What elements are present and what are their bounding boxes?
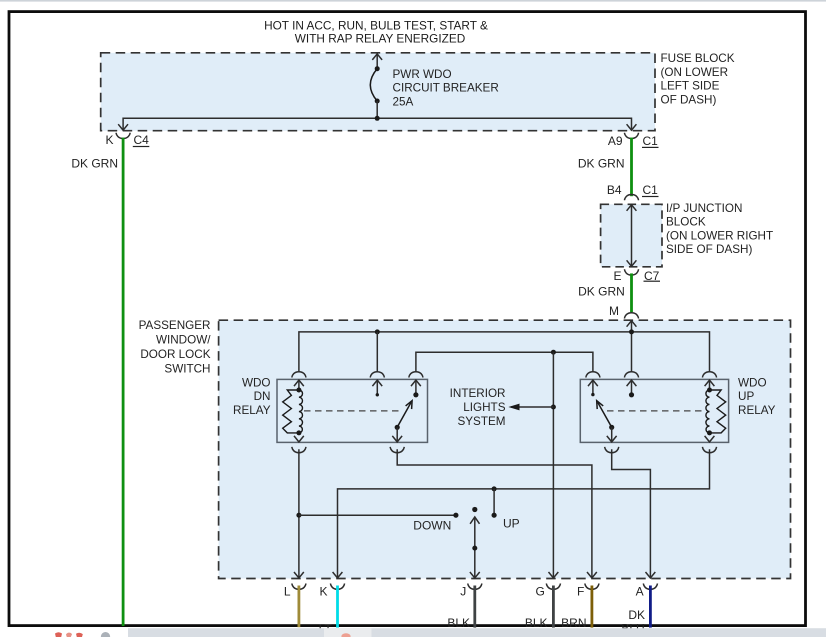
svg-text:DK: DK (628, 608, 645, 622)
svg-text:B4: B4 (607, 183, 622, 197)
svg-text:DOOR LOCK: DOOR LOCK (140, 348, 210, 361)
circuit breaker value label (393, 68, 499, 108)
svg-text:(ON LOWER RIGHT: (ON LOWER RIGHT (666, 229, 773, 242)
relay UP dashed link (607, 410, 703, 412)
junction on bus (375, 116, 380, 121)
svg-text:G: G (535, 584, 544, 598)
svg-text:RELAY: RELAY (738, 404, 776, 417)
svg-text:K: K (105, 133, 113, 147)
down contact line (299, 514, 456, 516)
svg-text:BRN: BRN (561, 616, 586, 630)
WDO UP relay label (738, 376, 776, 417)
svg-text:C4: C4 (134, 133, 150, 147)
terminal G (549, 572, 559, 578)
svg-text:CIRCUIT BREAKER: CIRCUIT BREAKER (393, 82, 499, 95)
svg-text:A: A (636, 584, 644, 598)
wire bus to left relay middle pin (376, 332, 378, 372)
fuse block label (661, 52, 735, 106)
top bus wire (299, 332, 710, 372)
wire LT BLU (336, 586, 339, 628)
up contact stub (493, 489, 495, 515)
junction dot interior lights tap (551, 350, 556, 355)
svg-text:J: J (460, 584, 466, 598)
wire left coil to terminal L (298, 449, 300, 578)
junction dot up contact feed (492, 486, 497, 491)
DK BLU label (621, 608, 645, 636)
wire DK BLU (649, 586, 652, 628)
up contact dot (492, 513, 497, 518)
terminal A9 arrow out of fuse block (627, 124, 637, 130)
fuse block box (101, 53, 655, 131)
svg-text:DK GRN: DK GRN (71, 156, 118, 170)
svg-text:K: K (319, 584, 327, 598)
junction dot interior lights arrow (551, 405, 556, 410)
svg-text:WITH RAP RELAY ENERGIZED: WITH RAP RELAY ENERGIZED (295, 31, 465, 45)
svg-text:L: L (284, 584, 291, 598)
WDO DN relay label (233, 376, 271, 417)
wire interior lights tap down to G (552, 352, 554, 578)
junction dot down contact feed (296, 513, 301, 518)
right relay coil top terminal (702, 372, 716, 378)
left relay middle pin terminal (370, 372, 384, 378)
left relay switch bottom terminal (392, 436, 402, 442)
svg-text:LEFT SIDE: LEFT SIDE (661, 80, 720, 93)
svg-text:DK GRN: DK GRN (578, 157, 625, 171)
svg-text:OF DASH): OF DASH) (661, 93, 717, 106)
terminal K connector (116, 133, 130, 139)
I/P junction block internal wire (631, 205, 633, 267)
svg-text:WDO: WDO (242, 376, 271, 389)
WDO UP relay box (580, 379, 728, 442)
C1 underline (642, 147, 659, 148)
right relay coil bottom terminal (705, 436, 715, 442)
svg-text:DK GRN: DK GRN (578, 284, 625, 298)
svg-text:SIDE OF DASH): SIDE OF DASH) (666, 243, 752, 256)
wire BLK G (552, 586, 555, 628)
passenger window/door lock switch box (219, 320, 791, 578)
svg-text:I/P JUNCTION: I/P JUNCTION (666, 202, 742, 215)
svg-text:BLK: BLK (447, 616, 470, 630)
I/P junction block box (601, 204, 662, 266)
junction dot left-middle pin (375, 329, 380, 334)
terminal B4 labels (607, 183, 658, 197)
wire left switch to terminal F (397, 449, 592, 578)
wire BRN (591, 586, 594, 628)
svg-text:UP: UP (738, 390, 754, 403)
svg-text:DOWN: DOWN (413, 519, 451, 533)
relay UP switch (597, 401, 615, 443)
svg-text:M: M (609, 304, 619, 318)
svg-text:PASSENGER: PASSENGER (139, 319, 211, 332)
right relay contact terminal (586, 372, 600, 378)
svg-text:BLOCK: BLOCK (666, 216, 706, 229)
terminal B4 connector (624, 195, 638, 201)
junction dot M (629, 329, 634, 334)
relay UP coil (706, 388, 726, 436)
passenger switch label (139, 319, 212, 376)
svg-text:(ON LOWER: (ON LOWER (661, 66, 729, 79)
left relay coil top terminal (292, 372, 306, 378)
right relay middle pin terminal (624, 372, 638, 378)
wire DK GRN left (122, 138, 125, 626)
svg-text:BLK: BLK (525, 616, 548, 630)
window switch lever J (470, 507, 479, 578)
terminal L (294, 572, 304, 578)
terminal A9 labels (608, 134, 658, 148)
terminal E connector (624, 269, 638, 275)
second bus wire (416, 352, 593, 372)
svg-text:LIGHTS: LIGHTS (463, 401, 505, 414)
svg-text:FUSE BLOCK: FUSE BLOCK (661, 52, 735, 65)
toolbar icon blob (341, 633, 350, 637)
wire BLK J (473, 586, 476, 628)
svg-text:C1: C1 (643, 134, 659, 148)
svg-text:UP: UP (503, 516, 520, 530)
terminal J (470, 572, 480, 578)
svg-text:A9: A9 (608, 134, 623, 148)
terminal E labels (613, 269, 659, 283)
terminal M entry arrow (627, 321, 637, 327)
C1 underline lower (642, 196, 659, 197)
svg-text:SWITCH: SWITCH (164, 363, 210, 376)
I/P junction block label (666, 202, 773, 256)
wire M to top bus (631, 320, 633, 372)
wire right coil to K and up contact (338, 449, 710, 578)
header text: HOT IN ... (264, 19, 488, 46)
relay DN switch (395, 392, 419, 442)
svg-text:DN: DN (254, 390, 271, 403)
C4 underline (133, 146, 150, 147)
relay DN coil (283, 388, 303, 436)
terminal A9 connector (624, 133, 638, 139)
terminal K labels (105, 133, 149, 147)
bottom toolbar light segment (324, 628, 372, 637)
interior lights feed line with arrow (511, 406, 553, 408)
down contact dot (453, 513, 458, 518)
svg-text:F: F (577, 584, 584, 598)
wire DK GRN right upper (630, 138, 633, 197)
svg-text:25A: 25A (393, 95, 414, 108)
terminal A (646, 572, 656, 578)
svg-text:WINDOW/: WINDOW/ (156, 334, 211, 347)
WDO DN relay box (277, 379, 428, 442)
bottom toolbar band (128, 628, 826, 637)
wire TAN (297, 586, 300, 628)
svg-text:PWR WDO: PWR WDO (393, 68, 452, 81)
terminal M connector (624, 313, 638, 319)
top window edge line (0, 0, 826, 2)
svg-text:E: E (613, 269, 621, 283)
relay DN dashed link (304, 410, 400, 412)
interior lights system label (450, 387, 506, 428)
terminal F (587, 572, 597, 578)
fuse block bus wire (123, 118, 631, 130)
right relay switch bottom terminal (607, 436, 617, 442)
C7 underline (644, 281, 661, 282)
wire DK GRN lower (630, 273, 633, 312)
logo fragment red letters (55, 632, 110, 637)
svg-text:WDO: WDO (738, 376, 767, 389)
left relay contact terminal (409, 372, 423, 378)
terminal K arrow out of fuse block (118, 124, 128, 130)
svg-text:C1: C1 (643, 183, 659, 197)
wire right switch to terminal A (612, 449, 651, 578)
terminal K (333, 572, 343, 578)
svg-text:SYSTEM: SYSTEM (457, 415, 505, 428)
circuit breaker CB feed wire with up arrow (376, 54, 378, 69)
left relay coil bottom terminal (294, 436, 304, 442)
svg-text:INTERIOR: INTERIOR (450, 387, 506, 400)
circuit breaker PWR WDO 25A (370, 66, 379, 118)
svg-text:RELAY: RELAY (233, 404, 271, 417)
